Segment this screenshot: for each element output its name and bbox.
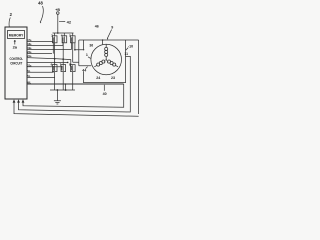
svg-text:24: 24 [96,76,100,80]
svg-text:CIRCUIT: CIRCUIT [10,61,23,65]
memory box [8,31,25,39]
feedback 1 [23,84,124,107]
svg-text:40: 40 [103,92,107,96]
feedback 3 bottom [14,102,139,116]
top supply rail [53,32,74,34]
svg-text:5: 5 [69,34,71,38]
svg-text:4: 4 [61,34,63,38]
wire +B down [57,14,59,33]
phase stub into box [75,43,84,50]
transistor 3 [51,33,57,54]
transistor 4 [61,33,67,43]
phase A corner wire [73,40,92,66]
motor box [84,40,126,83]
transistor 8 [69,63,75,72]
phase drops from top transistors [55,42,73,64]
source drops to ground rail [55,72,73,90]
wire row 6 [27,61,68,63]
transistor 7 [60,63,66,72]
svg-text:2a: 2a [13,45,18,50]
svg-text:MEMORY: MEMORY [9,34,24,38]
svg-text:-10: -10 [128,44,133,48]
ground rail [50,89,75,91]
svg-text:2: 2 [10,12,13,17]
control circuit box [5,27,27,99]
svg-text:48: 48 [38,1,43,6]
winding center junction [106,59,107,60]
winding top [105,44,108,60]
motor circle [91,44,122,75]
svg-text:3: 3 [51,33,53,37]
svg-text:36: 36 [89,44,93,48]
svg-text:11: 11 [124,52,128,56]
ground symbol [54,90,61,104]
phase wire to motor and feedback 3 [79,40,139,114]
svg-text:46: 46 [95,25,99,29]
transistor 6 [51,63,57,72]
svg-text:23: 23 [111,76,115,80]
phase node dots [54,58,56,60]
winding right [107,60,118,67]
transistor 5 [69,33,75,43]
svg-text:44: 44 [82,69,86,73]
winding left [94,60,105,67]
node 2a arrow [14,40,16,44]
svg-text:9: 9 [111,26,113,30]
feedback 2 [19,56,131,112]
svg-text:42: 42 [67,19,72,24]
svg-text:1: 1 [86,53,88,57]
